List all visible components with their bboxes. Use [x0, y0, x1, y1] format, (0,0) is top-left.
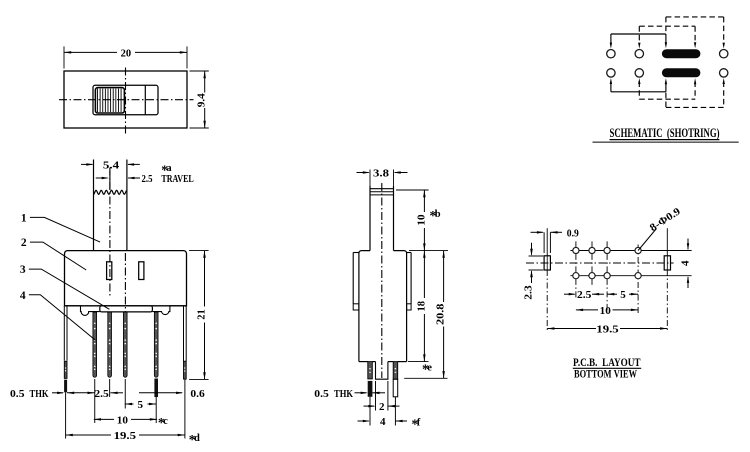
svg-text:9.4: 9.4 — [196, 93, 208, 108]
svg-text:0.6: 0.6 — [190, 388, 205, 400]
svg-text:10: 10 — [415, 214, 427, 226]
svg-text:THK: THK — [334, 388, 353, 400]
svg-text:e: e — [427, 363, 432, 374]
svg-text:d: d — [194, 433, 200, 444]
svg-text:BOTTOM VIEW: BOTTOM VIEW — [574, 368, 637, 381]
svg-text:2: 2 — [379, 401, 385, 413]
svg-text:5: 5 — [138, 399, 144, 411]
svg-text:3: 3 — [20, 264, 26, 276]
svg-text:10: 10 — [600, 305, 612, 317]
svg-text:SCHEMATIC (SHOTRING): SCHEMATIC (SHOTRING) — [610, 126, 720, 140]
svg-text:21: 21 — [196, 309, 208, 320]
svg-text:f: f — [417, 418, 421, 429]
svg-text:0.5: 0.5 — [314, 388, 329, 400]
svg-text:2.3: 2.3 — [523, 285, 535, 300]
svg-text:20.8: 20.8 — [435, 303, 447, 325]
svg-text:2.5: 2.5 — [142, 173, 153, 185]
svg-text:19.5: 19.5 — [596, 324, 619, 336]
svg-text:a: a — [166, 163, 172, 174]
svg-text:c: c — [163, 416, 168, 427]
svg-text:1: 1 — [21, 212, 27, 224]
svg-text:4: 4 — [380, 416, 386, 428]
svg-text:19.5: 19.5 — [114, 430, 137, 442]
svg-text:2.5: 2.5 — [94, 388, 109, 400]
svg-text:0.5: 0.5 — [10, 388, 25, 400]
svg-text:3.8: 3.8 — [373, 167, 390, 179]
svg-text:0.9: 0.9 — [567, 228, 579, 240]
svg-text:10: 10 — [117, 414, 129, 426]
svg-text:8-Φ0.9: 8-Φ0.9 — [648, 206, 683, 234]
svg-text:20: 20 — [121, 47, 132, 59]
svg-text:2.5: 2.5 — [577, 289, 592, 301]
svg-text:4: 4 — [680, 260, 692, 266]
svg-text:b: b — [435, 209, 441, 220]
svg-text:4: 4 — [20, 290, 26, 302]
svg-text:2: 2 — [21, 237, 27, 249]
svg-text:18: 18 — [415, 300, 427, 311]
svg-text:5.4: 5.4 — [103, 159, 120, 171]
svg-text:THK: THK — [30, 388, 49, 400]
svg-text:5: 5 — [620, 289, 626, 301]
